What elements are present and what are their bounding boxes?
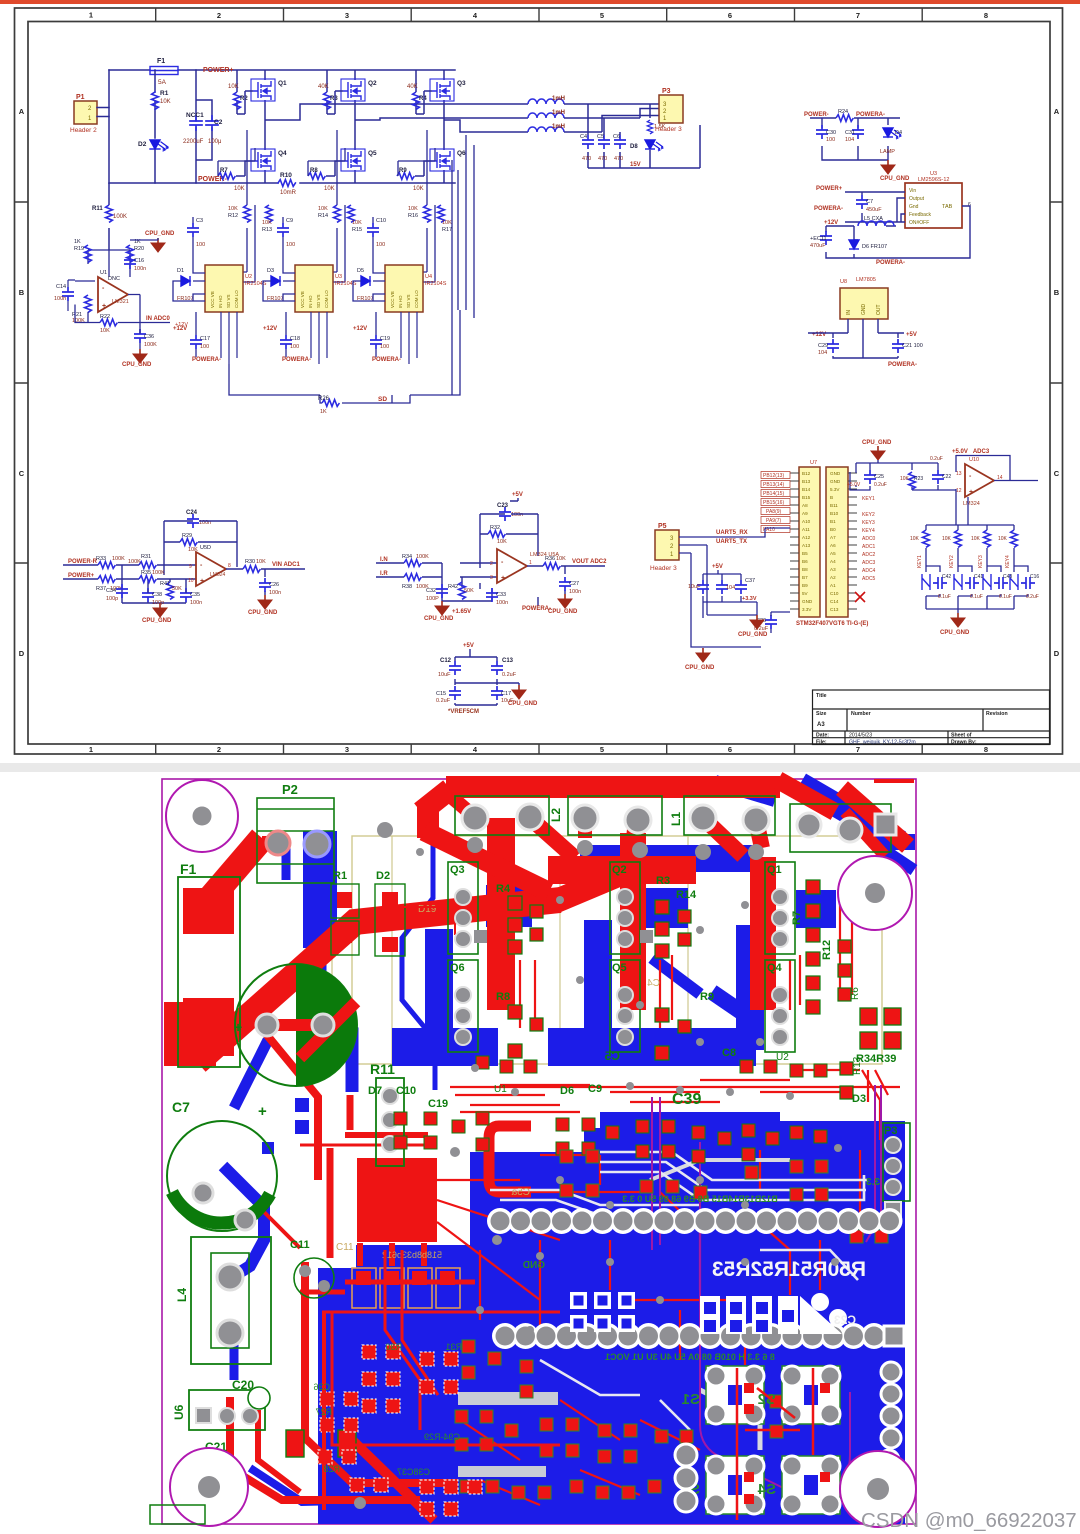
svg-text:100K: 100K (416, 554, 429, 560)
svg-text:Q5: Q5 (368, 150, 377, 157)
resistor R16 (424, 205, 431, 222)
pad R11b (382, 1112, 398, 1128)
diode D1 FR107 (181, 276, 190, 286)
svg-text:470: 470 (582, 156, 591, 162)
svg-text:CPU_GND: CPU_GND (940, 630, 970, 636)
capacitor C33 (486, 588, 498, 602)
svg-text:A8: A8 (802, 503, 808, 508)
inductor L2 (528, 110, 565, 118)
wire: buck input (845, 192, 970, 258)
svg-text:100n: 100n (496, 600, 508, 606)
svg-text:VOUT ADC2: VOUT ADC2 (572, 559, 607, 565)
svg-text:SD: SD (378, 396, 387, 403)
svg-text:R37: R37 (96, 586, 106, 592)
svg-text:100n: 100n (269, 590, 281, 596)
svg-text:B5: B5 (802, 551, 808, 556)
svg-text:C2: C2 (214, 119, 223, 126)
connector U7 column A (799, 467, 820, 617)
capacitor C23 white pads (700, 1293, 856, 1334)
svg-text:D7: D7 (368, 1085, 382, 1097)
svg-text:R12: R12 (821, 940, 833, 960)
resistor R1 (152, 70, 171, 138)
capacitor C36 (134, 329, 146, 343)
capacitor C22 (932, 470, 944, 484)
svg-text:10K: 10K (442, 220, 452, 226)
ground CPU_GND (258, 595, 272, 609)
wire: blue band low right (548, 1028, 756, 1066)
resistor R17 (438, 205, 445, 222)
wire: left drop to P1 (108, 70, 110, 183)
svg-text:U7: U7 (810, 460, 817, 466)
frame column numbers (89, 11, 988, 755)
schematic sheet inner frame (28, 22, 1050, 745)
svg-text:3.3: 3.3 (866, 1177, 880, 1188)
svg-text:C11: C11 (290, 1239, 310, 1251)
svg-text:KEY1: KEY1 (917, 555, 923, 568)
opamp U1 current amp (54, 183, 188, 368)
fuse F1 (150, 58, 178, 86)
svg-text:C5: C5 (604, 1049, 620, 1063)
wire: bus verticals right of bridge (452, 135, 474, 395)
svg-text:R32: R32 (490, 525, 500, 531)
capacitor C20 pad (248, 1387, 270, 1409)
svg-text:+5.0V: +5.0V (847, 482, 861, 488)
svg-text:P2: P2 (282, 782, 298, 797)
svg-text:+5V: +5V (906, 332, 917, 338)
svg-text:B7: B7 (802, 575, 808, 580)
svg-text:10K: 10K (971, 536, 981, 542)
svg-text:TAB: TAB (942, 204, 953, 210)
capacitor C26 (259, 578, 271, 592)
svg-text:D2: D2 (376, 870, 390, 882)
svg-text:+5V: +5V (512, 492, 523, 498)
svg-text:GND: GND (830, 479, 841, 484)
wire: uart (679, 528, 790, 647)
svg-text:A: A (19, 107, 25, 116)
svg-text:CPU_GND: CPU_GND (862, 440, 892, 446)
svg-text:C7: C7 (172, 1099, 190, 1115)
svg-text:D8: D8 (630, 144, 638, 150)
half-bridge column 3 (397, 70, 528, 282)
inductor L5 (858, 221, 894, 226)
svg-text:C36: C36 (144, 334, 154, 340)
svg-text:+: + (501, 575, 505, 582)
svg-text:100: 100 (826, 137, 835, 143)
svg-text:10K: 10K (408, 206, 418, 212)
svg-text:0.2uF: 0.2uF (874, 482, 887, 488)
connector right silk (684, 796, 775, 835)
svg-text:IN HO: IN HO (308, 295, 313, 308)
svg-text:10K: 10K (497, 539, 507, 545)
svg-text:IN: IN (846, 310, 852, 315)
resistor R8 gate Q5 (308, 173, 325, 180)
resistor R37 (98, 576, 115, 583)
svg-text:R12: R12 (228, 213, 238, 219)
switch S3 (682, 1456, 764, 1514)
red SMD cluster in pour (455, 1150, 888, 1499)
VREF divider block (436, 643, 538, 715)
svg-text:9: 9 (189, 564, 192, 570)
pad R1b (337, 927, 352, 943)
svg-text:R34: R34 (402, 554, 412, 560)
svg-text:10K: 10K (228, 84, 239, 90)
op-amp U5D LM324 (196, 552, 226, 586)
pad row header 2 (492, 1323, 904, 1349)
svg-text:IN HO: IN HO (218, 295, 223, 308)
wire: inputs2 (376, 563, 497, 601)
inductor L4 silk (191, 1237, 271, 1364)
svg-text:Q6: Q6 (457, 150, 466, 157)
svg-text:R10: R10 (280, 172, 292, 179)
transistor Q1 (251, 79, 275, 101)
red diagonal A (196, 838, 262, 915)
svg-text:10K: 10K (256, 559, 266, 565)
capacitor C43 (994, 577, 1008, 589)
svg-text:Drawn By:: Drawn By: (951, 740, 977, 746)
wire: blue top right diagonals (800, 784, 900, 842)
svg-text:KEY3: KEY3 (978, 555, 984, 568)
svg-text:R9: R9 (700, 991, 714, 1003)
svg-text:R24: R24 (838, 109, 848, 115)
pad can1 (256, 1014, 278, 1036)
ground CPU_GND (435, 601, 449, 615)
svg-text:C: C (19, 469, 25, 478)
svg-text:C10: C10 (376, 218, 386, 224)
svg-text:1mH: 1mH (552, 96, 565, 102)
capacitor C13 (491, 661, 503, 675)
svg-text:7: 7 (856, 11, 860, 20)
wire: pin stubs right (848, 473, 857, 609)
red top band (446, 776, 780, 798)
svg-text:C37: C37 (745, 578, 755, 584)
svg-text:100μ: 100μ (208, 139, 222, 145)
svg-text:C7: C7 (866, 199, 873, 205)
svg-text:0.1uF: 0.1uF (999, 594, 1012, 600)
svg-text:CPU_GND: CPU_GND (122, 362, 152, 368)
svg-text:POWERA-: POWERA- (192, 357, 221, 363)
svg-text:C14: C14 (830, 599, 839, 604)
svg-text:U1: U1 (494, 1084, 507, 1095)
svg-text:B10: B10 (830, 511, 839, 516)
svg-text:L5 CXA: L5 CXA (864, 216, 883, 222)
svg-text:C23: C23 (834, 1313, 856, 1327)
svg-text:0.2uF: 0.2uF (930, 456, 943, 462)
buck converter U3 LM2596 (810, 171, 971, 266)
svg-text:A12: A12 (802, 535, 811, 540)
svg-text:P1: P1 (76, 94, 85, 101)
svg-text:C33: C33 (496, 592, 506, 598)
wire: drain drops col1 (264, 70, 266, 183)
svg-text:LM324: LM324 (210, 572, 226, 578)
svg-text:POWERA-: POWERA- (372, 357, 401, 363)
svg-text:+: + (258, 1103, 267, 1120)
wire: blue band mid (580, 845, 758, 872)
svg-text:R34R39: R34R39 (856, 1053, 896, 1065)
svg-text:U2: U2 (776, 1052, 789, 1063)
svg-text:Q2: Q2 (368, 80, 377, 87)
svg-text:POWERA-: POWERA- (814, 206, 843, 212)
op-amp U10 (965, 464, 994, 497)
svg-text:C35: C35 (190, 592, 200, 598)
wire: top net (850, 460, 956, 490)
svg-text:10K: 10K (352, 220, 362, 226)
svg-text:PB13(14): PB13(14) (763, 482, 784, 488)
svg-text:LM321: LM321 (112, 299, 129, 305)
transistor Q3 silk (448, 862, 478, 954)
svg-text:Q4: Q4 (278, 150, 287, 157)
svg-text:B14: B14 (802, 487, 811, 492)
svg-text:C38C37: C38C37 (397, 1467, 430, 1477)
resistor R34 (404, 560, 421, 567)
svg-text:R13: R13 (262, 227, 272, 233)
svg-text:R6: R6 (850, 987, 861, 1000)
svg-text:+12V: +12V (263, 326, 277, 332)
wire: buck output loop (826, 226, 940, 258)
resistor R31 (139, 562, 156, 569)
svg-text:R11: R11 (370, 1061, 395, 1077)
svg-text:LM7805: LM7805 (856, 277, 876, 283)
svg-text:CPU_GND: CPU_GND (142, 618, 172, 624)
pad D2a (382, 892, 398, 907)
ground CPU_GND2 (696, 648, 710, 662)
svg-text:GND: GND (523, 1260, 545, 1271)
svg-text:PB14(15): PB14(15) (763, 491, 784, 497)
svg-text:S4: S4 (757, 1481, 776, 1498)
svg-text:8: 8 (984, 11, 988, 20)
svg-text:7: 7 (856, 745, 860, 754)
svg-text:B12: B12 (802, 471, 811, 476)
pad can2 (312, 1014, 334, 1036)
wire: vref (455, 649, 519, 705)
linear regulator U8 LM7805 (808, 277, 923, 368)
svg-text:+: + (969, 489, 973, 496)
connector P2 silk (257, 798, 334, 883)
wire: gate feed Q4 (236, 161, 253, 176)
svg-text:U10: U10 (969, 457, 979, 463)
resistor R12 (244, 205, 251, 222)
svg-text:UART5_TX: UART5_TX (716, 539, 747, 545)
svg-text:B9: B9 (802, 583, 808, 588)
svg-text:C9: C9 (286, 218, 293, 224)
svg-text:3: 3 (490, 575, 493, 581)
svg-text:R14: R14 (318, 213, 328, 219)
connector P1 (70, 94, 109, 134)
switch S2 (758, 1366, 840, 1424)
svg-text:+EC11: +EC11 (810, 236, 827, 242)
svg-text:100n: 100n (54, 296, 66, 302)
svg-text:ON#OFF: ON#OFF (909, 220, 929, 226)
svg-text:C12: C12 (440, 658, 452, 664)
LED D2 (138, 140, 168, 183)
svg-text:R4: R4 (496, 883, 511, 895)
svg-text:C21 100: C21 100 (902, 343, 923, 349)
svg-text:A6: A6 (830, 543, 836, 548)
capacitor C17b (491, 686, 503, 700)
svg-text:POWERA-: POWERA- (282, 357, 311, 363)
capacitor C7 (856, 195, 868, 209)
resistor R41 (167, 582, 174, 599)
svg-text:P5: P5 (658, 523, 667, 530)
svg-text:POWERA-: POWERA- (522, 606, 551, 612)
LED D8 (630, 140, 663, 151)
svg-text:C18: C18 (290, 336, 300, 342)
pad row header 1 (487, 1208, 903, 1234)
svg-text:SD VS: SD VS (406, 294, 411, 308)
wire: red channel along pour edge (322, 1312, 326, 1510)
wire: U10 loop (956, 455, 1038, 525)
svg-text:POWER+: POWER+ (68, 573, 95, 579)
red bar mid (548, 856, 696, 884)
capacitor C34 (116, 584, 128, 598)
capacitor C41 (965, 577, 979, 589)
transistor Q1 silk (765, 862, 795, 954)
resistor R13 (266, 205, 273, 222)
svg-text:ADC5: ADC5 (862, 576, 876, 582)
transistor Q5 (341, 149, 365, 171)
op-amp U5A LM324 (497, 549, 527, 583)
svg-text:KEY4: KEY4 (1005, 555, 1011, 568)
ground CPU_GND (151, 238, 165, 252)
diode D6 FR107 (849, 240, 859, 249)
pad R11a (382, 1088, 398, 1104)
svg-text:10mR: 10mR (280, 190, 297, 196)
capacitor C16b (1021, 577, 1035, 589)
svg-text:3: 3 (345, 745, 349, 754)
svg-text:Gnd: Gnd (909, 204, 919, 210)
wire: blue bar Q3 col (425, 929, 453, 1051)
wire: output (226, 569, 305, 595)
resistor R11 (108, 183, 110, 250)
svg-text:C5: C5 (597, 134, 604, 140)
svg-text:100n: 100n (190, 600, 202, 606)
svg-text:R7: R7 (791, 911, 803, 925)
svg-text:IN HO: IN HO (398, 295, 403, 308)
resistor R35 (139, 576, 156, 583)
svg-text:C10: C10 (830, 591, 839, 596)
capacitor C16 (124, 255, 136, 269)
frame row letters (19, 107, 1060, 658)
svg-text:KEY3: KEY3 (862, 520, 875, 526)
svg-text:10K: 10K (160, 99, 171, 105)
svg-text:COM LO: COM LO (234, 290, 239, 308)
pad column right bottom (881, 1362, 901, 1382)
wire: silver bars (458, 1392, 558, 1405)
svg-text:100: 100 (376, 242, 385, 248)
wire: output2 (527, 566, 605, 606)
svg-text:B8: B8 (802, 567, 808, 572)
svg-text:6: 6 (728, 745, 732, 754)
wire: gate feed Q3 (416, 91, 432, 114)
svg-text:Q1: Q1 (767, 864, 782, 876)
mounting hole bottom-left (170, 1448, 248, 1526)
svg-text:0.2uF: 0.2uF (1026, 594, 1039, 600)
svg-text:+1.65V: +1.65V (452, 609, 471, 615)
switch S4 (757, 1456, 840, 1514)
wire: 7805 (808, 319, 904, 358)
frame column ticks (15, 8, 1064, 754)
svg-text:0.1uF: 0.1uF (938, 594, 951, 600)
capacitor C12 (449, 661, 461, 675)
svg-text:100: 100 (290, 344, 299, 350)
capacitor C31 (852, 125, 864, 139)
capacitor C18 (280, 335, 292, 349)
svg-text:File:: File: (816, 740, 827, 746)
svg-text:5A: 5A (158, 79, 167, 86)
svg-text:1: 1 (529, 560, 532, 566)
wire: blue band low left (392, 1028, 498, 1066)
svg-text:10K: 10K (942, 536, 952, 542)
svg-text:SD VS: SD VS (316, 294, 321, 308)
resistor R42 (459, 582, 466, 599)
svg-text:CPU_GND: CPU_GND (880, 176, 910, 182)
wire: red through can (260, 1002, 356, 1058)
transistor Q2 silk (610, 862, 640, 954)
svg-text:ADC1: ADC1 (862, 544, 876, 550)
diode D5 FR107 (361, 276, 370, 286)
pad D2b (382, 937, 398, 952)
ground CPU_GND (512, 685, 526, 699)
inductor L1 (528, 96, 565, 104)
svg-text:KEY2: KEY2 (862, 512, 875, 518)
svg-text:LAMP: LAMP (880, 149, 895, 155)
svg-text:8: 8 (984, 745, 988, 754)
svg-text:100n: 100n (134, 266, 146, 272)
svg-text:B12B13B14B15 B8 B9 68 89 5U 0: B12B13B14B15 B8 B9 68 89 5U 0 3.3 (622, 1194, 778, 1204)
svg-text:S1: S1 (682, 1391, 700, 1408)
svg-text:COM LO: COM LO (414, 290, 419, 308)
wire: blue thin left loop (402, 818, 435, 1090)
svg-text:ADC3: ADC3 (862, 560, 876, 566)
connector U7 column B (826, 467, 848, 617)
svg-text:CPU_GND: CPU_GND (248, 610, 278, 616)
svg-text:Vin: Vin (909, 188, 916, 194)
svg-text:10uF: 10uF (438, 672, 451, 678)
wire: magenta thin traces (652, 1085, 881, 1502)
half-bridge column 1 (218, 70, 528, 282)
svg-text:10K: 10K (234, 186, 245, 192)
svg-text:C24: C24 (186, 510, 198, 516)
gate driver U2B IR2104 (263, 217, 357, 364)
svg-text:C3: C3 (196, 218, 203, 224)
svg-text:100K: 100K (128, 559, 141, 565)
connector P3 (655, 88, 683, 133)
svg-text:C30: C30 (826, 130, 836, 136)
wire: blue blob mid (712, 992, 750, 1018)
svg-text:ADC4: ADC4 (862, 568, 876, 574)
svg-text:R17: R17 (442, 227, 452, 233)
circle D4 (294, 1258, 334, 1298)
capacitor C28 (697, 580, 709, 594)
resistor block R34 R39 (860, 1008, 901, 1049)
svg-text:1K: 1K (74, 239, 81, 245)
svg-text:PB15(16): PB15(16) (763, 500, 784, 506)
svg-text:B: B (19, 288, 25, 297)
MCU header U7 (761, 460, 876, 627)
pad R1a (337, 892, 352, 908)
svg-text:*VREF5CM: *VREF5CM (448, 709, 479, 715)
svg-text:100K: 100K (112, 556, 125, 562)
svg-text:10K: 10K (324, 186, 335, 192)
svg-text:C34: C34 (106, 588, 116, 594)
svg-text:POWERA-: POWERA- (856, 112, 885, 118)
wire: phase node col3 (444, 120, 528, 132)
svg-text:C8: C8 (722, 1047, 736, 1059)
svg-text:R36: R36 (545, 556, 555, 562)
svg-text:100: 100 (200, 344, 209, 350)
svg-text:B6: B6 (802, 559, 808, 564)
svg-text:5: 5 (600, 11, 604, 20)
svg-text:R19: R19 (74, 246, 84, 252)
